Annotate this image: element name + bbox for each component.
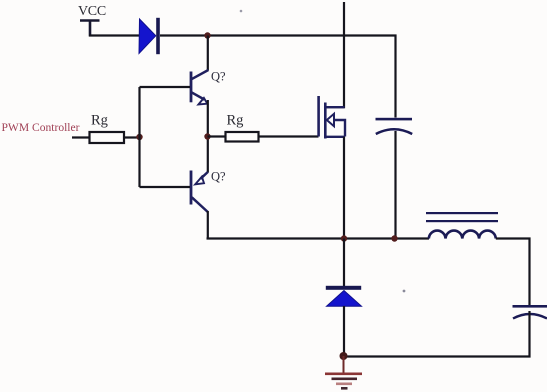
junction: ground node	[340, 352, 348, 360]
mosfet Q3 N-channel	[317, 96, 345, 139]
wire: base rail vertical	[138, 87, 140, 187]
junction: base rail / Rg1	[136, 134, 142, 140]
wire: diode cathode along top rail to corner	[160, 34, 397, 36]
wire: top rail corner down to capacitor C1	[394, 35, 396, 118]
junction: switch node / MOSFET source / D2	[341, 235, 347, 241]
svg-text:Rg: Rg	[227, 113, 244, 129]
diode D2 freewheeling	[326, 239, 362, 357]
wire: PWM controller to Rg1	[72, 136, 90, 138]
diode D1 bootstrap	[139, 18, 160, 54]
transformer core lines	[426, 212, 498, 222]
wire: inductor to output corner	[496, 239, 530, 307]
wire: MOSFET source down to switch node	[343, 137, 345, 239]
svg-text:VCC: VCC	[78, 4, 106, 19]
capacitor C1 bootstrap	[376, 118, 413, 134]
svg-text:PWM Controller: PWM Controller	[2, 122, 80, 134]
svg-text:Rg: Rg	[91, 113, 108, 129]
junction: emitter rail / gate drive tap	[204, 133, 210, 139]
wire: Vin vertical down to MOSFET drain stub	[326, 2, 344, 107]
wire: switch node bottom rail	[207, 237, 430, 239]
wire: C2 to output bottom rail	[344, 311, 530, 357]
transistor Q2 PNP lower driver	[140, 137, 208, 240]
wire: C1 bottom to switch node rail	[394, 131, 396, 239]
wire: Rg1 to base rail junction	[124, 136, 141, 138]
wire: VCC corner to diode anode	[89, 34, 140, 36]
wire: Rg2 to MOSFET gate	[259, 135, 319, 137]
ground	[325, 356, 362, 390]
svg-text:Q?: Q?	[211, 170, 226, 184]
junction: switch node / C1	[391, 235, 397, 241]
resistor Rg1	[90, 132, 125, 143]
svg-text:Q?: Q?	[211, 70, 226, 84]
junction: top rail / Q1 collector	[204, 32, 210, 38]
VCC power symbol	[80, 21, 100, 37]
resistor Rg2	[226, 132, 259, 142]
inductor L1	[429, 231, 496, 239]
wire: emitter junction to Rg2	[208, 135, 226, 137]
capacitor C2 output	[513, 305, 547, 319]
transistor Q1 NPN upper driver	[140, 36, 209, 137]
